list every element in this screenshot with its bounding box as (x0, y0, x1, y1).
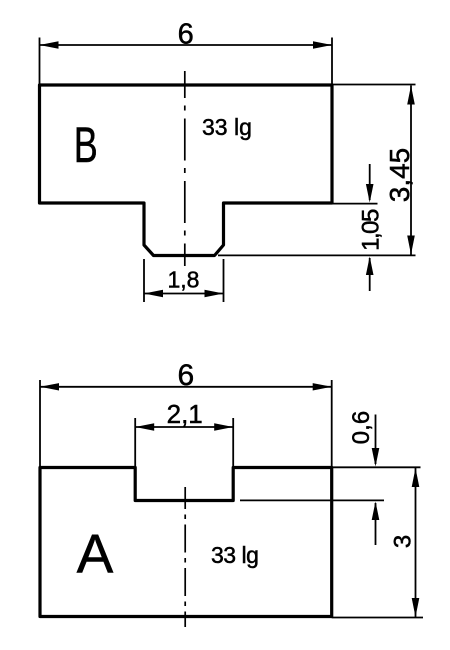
extension line right (dim 6, A) (331, 380, 333, 467)
text 33 lg (part A) (211, 542, 258, 568)
svg-text:6: 6 (177, 359, 194, 392)
extension line top right (B) (332, 84, 416, 86)
svg-text:1,05: 1,05 (358, 209, 385, 251)
dimension text 1,8 (168, 267, 200, 293)
leader lower (dim 0,6) (372, 502, 380, 546)
svg-text:6: 6 (178, 19, 194, 51)
extension line top right (A) (332, 466, 421, 468)
extension line left (dim 6, B) (39, 38, 41, 85)
centerline part A (184, 487, 186, 627)
svg-text:33 lg: 33 lg (202, 114, 252, 140)
extension line left (dim 1,8) (143, 259, 145, 302)
dimension text 1,05 (358, 209, 385, 251)
leader lower (dim 1,05) (366, 257, 374, 292)
extension line left (dim 6, A) (39, 380, 41, 467)
extension line right (dim 1,8) (223, 259, 225, 302)
label A (77, 523, 114, 585)
dimension text 3,45 (384, 148, 415, 203)
svg-text:0,6: 0,6 (348, 411, 375, 444)
dimension line 6 (A) (40, 383, 332, 390)
dimension text 0,6 (348, 411, 375, 444)
part B outline (40, 85, 333, 256)
centerline part B (184, 71, 186, 266)
svg-text:B: B (74, 118, 98, 173)
dimension text 6 (B) (178, 19, 194, 51)
label B (74, 118, 98, 173)
svg-text:33 lg: 33 lg (211, 542, 258, 568)
dimension line 1,8 (144, 290, 224, 297)
svg-text:A: A (77, 523, 114, 585)
dimension text 3 (390, 535, 417, 548)
leader upper (dim 0,6) (372, 415, 380, 467)
text 33 lg (part B) (202, 114, 252, 140)
extension line notch bottom (A) (240, 499, 384, 501)
svg-text:2,1: 2,1 (167, 399, 203, 429)
leader upper (dim 1,05) (366, 164, 374, 203)
svg-text:3: 3 (390, 535, 417, 548)
extension line right (dim 2,1) (232, 418, 234, 467)
extension line right (dim 6, B) (331, 38, 333, 85)
part A outline (40, 468, 332, 617)
dimension line 2,1 (135, 423, 233, 430)
dimension text 6 (A) (177, 359, 194, 392)
dimension text 2,1 (167, 399, 203, 429)
extension line mid right (B bottom edge) (332, 203, 378, 205)
extension line bottom right (A) (332, 617, 423, 619)
svg-text:1,8: 1,8 (168, 267, 200, 293)
dimension line 6 (B) (40, 41, 333, 48)
dimension line 3,45 (B) (407, 86, 415, 255)
extension line tongue bottom right (B) (218, 254, 416, 256)
svg-text:3,45: 3,45 (384, 148, 415, 203)
extension line left (dim 2,1) (134, 418, 136, 467)
dimension line 3 (A) (412, 468, 420, 617)
